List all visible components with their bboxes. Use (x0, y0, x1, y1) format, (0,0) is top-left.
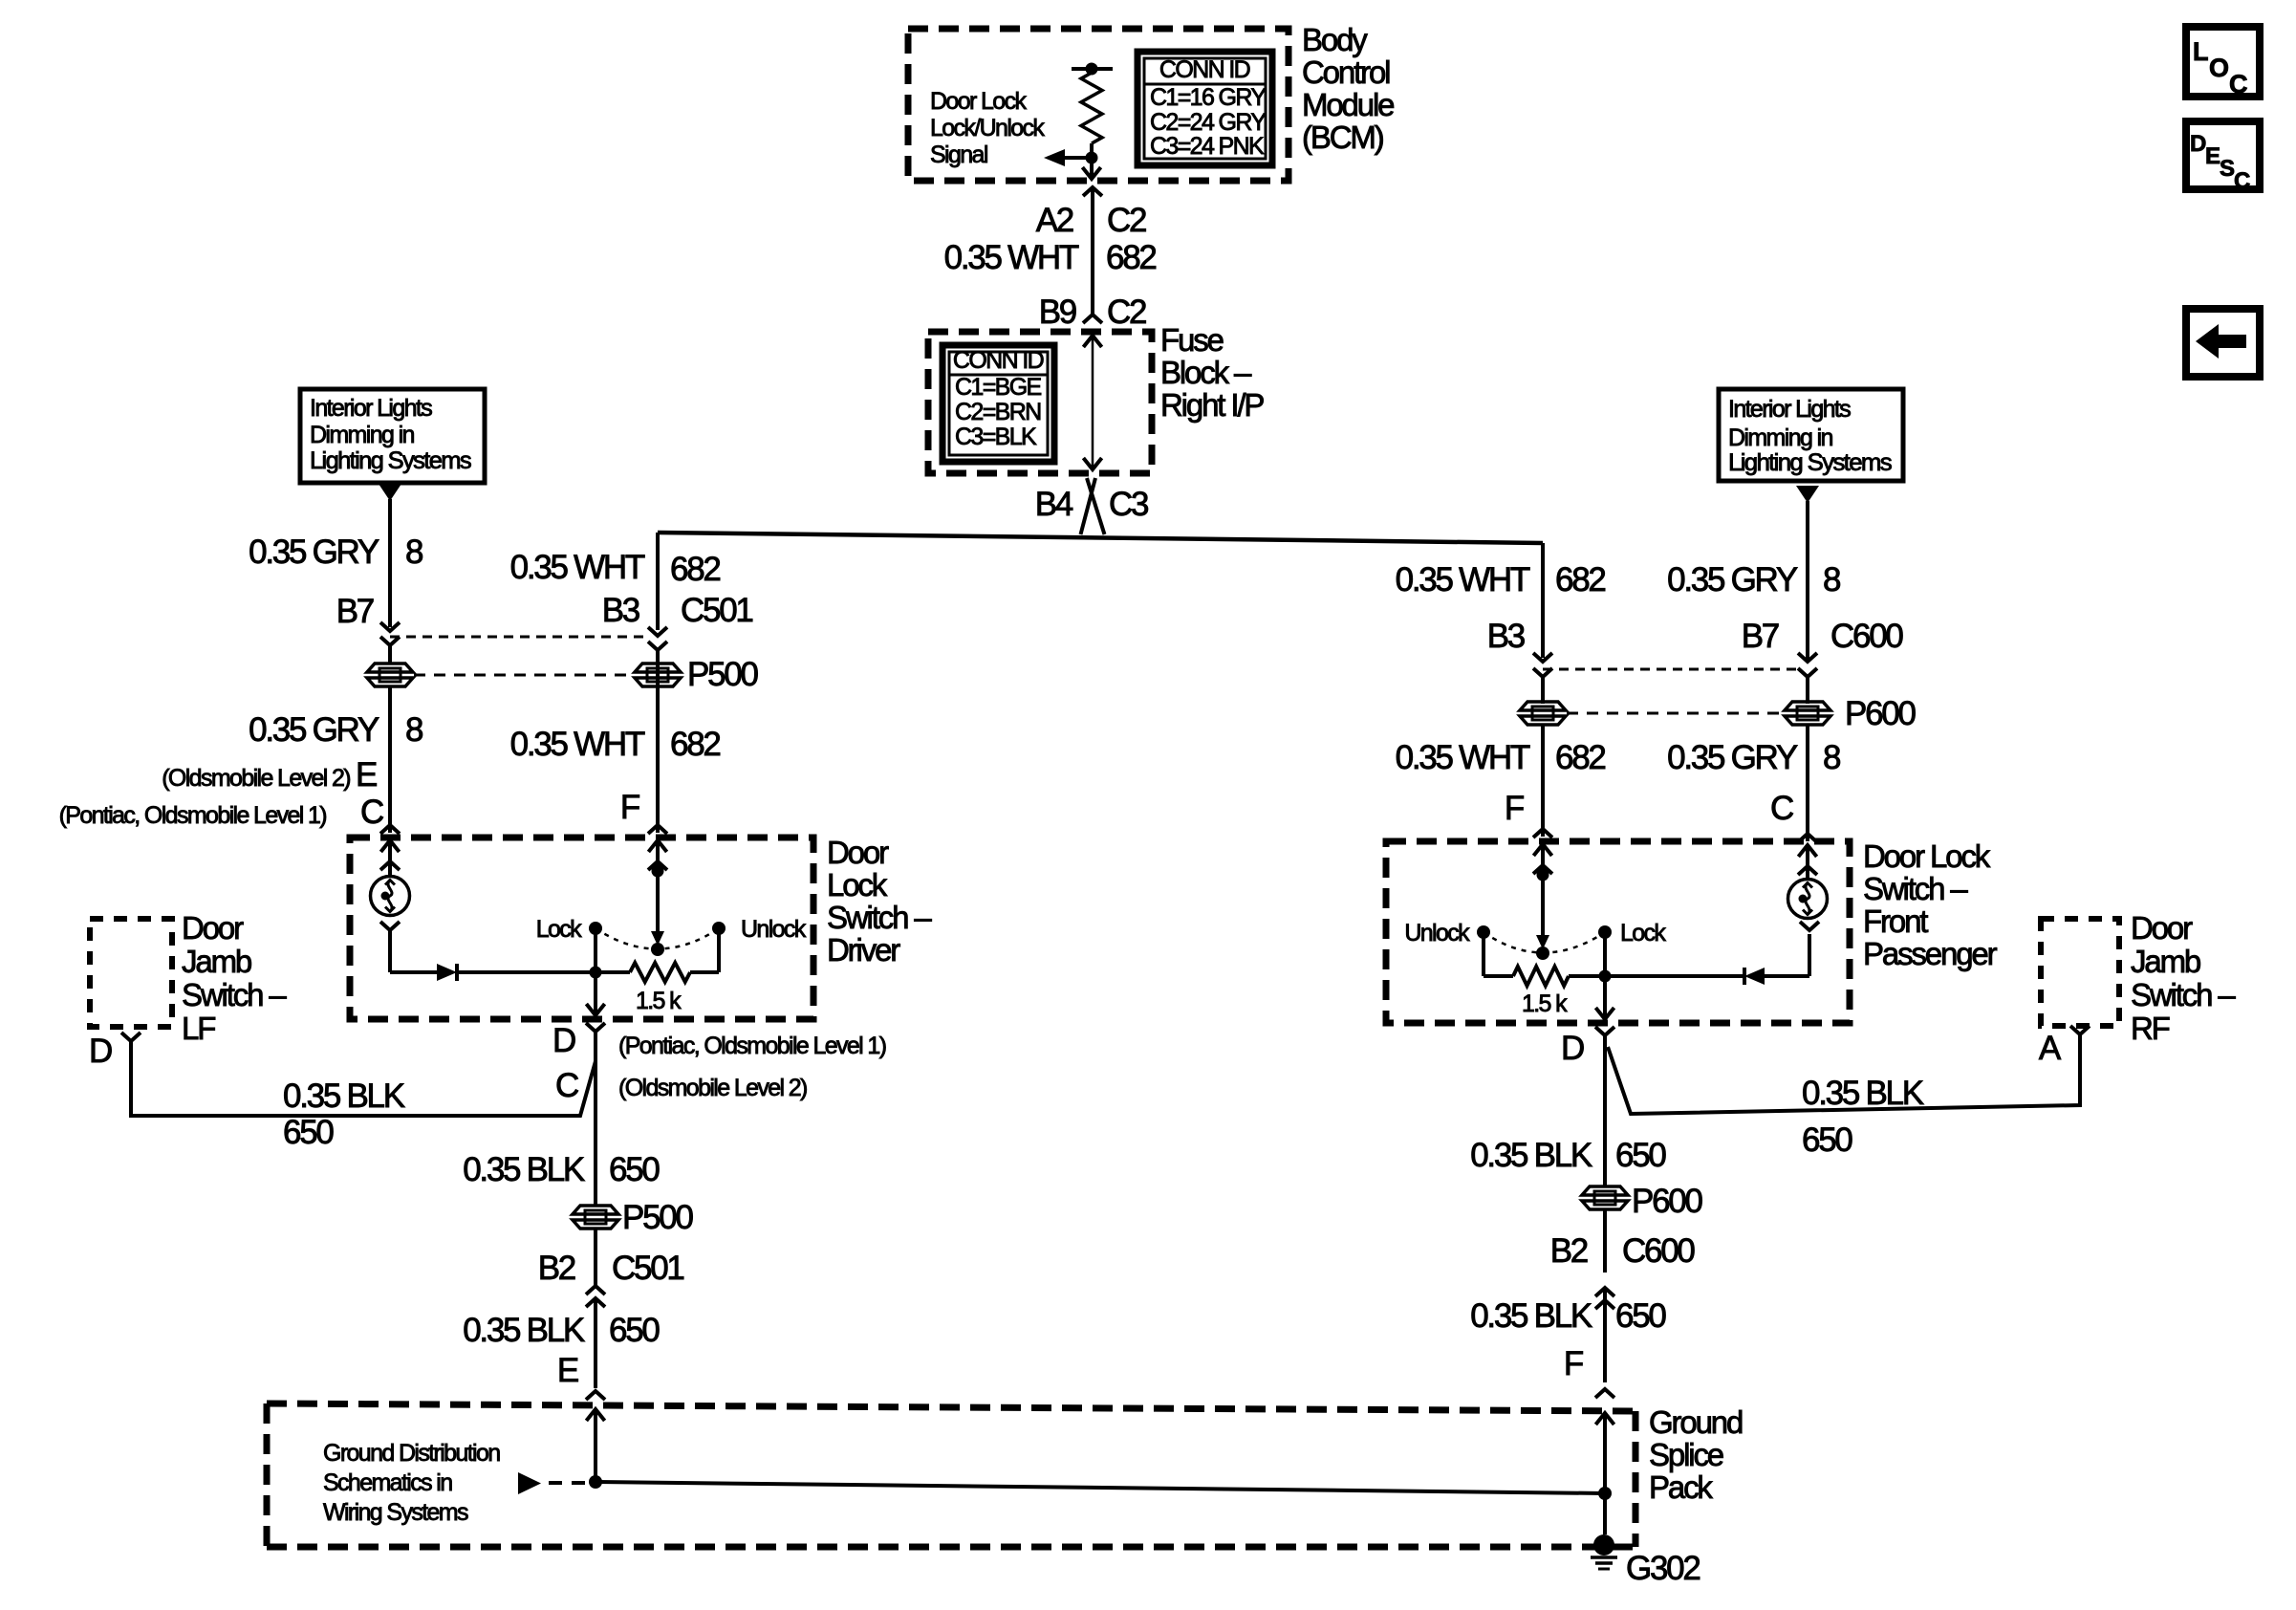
chevron inside driver box (wht) (648, 861, 667, 870)
svg-text:G302: G302 (1626, 1550, 1700, 1587)
svg-text:C: C (360, 794, 383, 831)
svg-text:682: 682 (670, 551, 720, 588)
svg-text:Lock: Lock (536, 916, 582, 943)
arrow BCM signal (left) (1044, 149, 1065, 166)
svg-text:C: C (2229, 70, 2247, 98)
svg-text:Door Lock: Door Lock (1863, 838, 1991, 874)
svg-text:Signal: Signal (930, 141, 987, 168)
wire P500 to door lock switch driver (wht) (656, 685, 660, 833)
svg-text:Switch –: Switch – (2131, 977, 2236, 1012)
wire passenger D to P600 lower (1603, 1047, 1607, 1187)
svg-text:Driver: Driver (827, 932, 900, 968)
node junction at BCM signal tap (1086, 152, 1098, 164)
svg-text:Schematics in: Schematics in (323, 1469, 452, 1496)
fork above passenger box pin F (1533, 829, 1552, 838)
svg-text:P500: P500 (687, 656, 758, 693)
LOC button icon (2186, 27, 2260, 97)
svg-text:0.35 BLK: 0.35 BLK (1470, 1137, 1592, 1174)
lamp illumination (passenger) (1788, 880, 1828, 919)
svg-text:C501: C501 (612, 1250, 683, 1287)
svg-text:0.35 WHT: 0.35 WHT (1396, 739, 1530, 776)
svg-text:D: D (1561, 1030, 1584, 1067)
svg-text:C1=16 GRY: C1=16 GRY (1150, 84, 1267, 111)
resistor 1.5 k (passenger) (1484, 974, 1513, 978)
wire B2 to F (right) (1603, 1287, 1607, 1382)
svg-text:650: 650 (283, 1114, 334, 1151)
wire driver D to P500 lower (594, 1043, 597, 1207)
svg-text:Unlock: Unlock (1404, 920, 1470, 946)
wire into splice pack (right) (1603, 1413, 1607, 1534)
arrow wiper (driver) (651, 931, 664, 946)
connector P600 (gry wire) (1785, 702, 1830, 710)
connector P500 (wht wire) (635, 664, 681, 672)
svg-text:0.35 BLK: 0.35 BLK (463, 1151, 585, 1188)
svg-text:Lighting Systems: Lighting Systems (310, 447, 471, 474)
fork above driver box pin C (380, 825, 400, 834)
wire junction to exit (driver) (594, 972, 597, 1015)
wire junction to diode (passenger) (1605, 974, 1744, 978)
svg-text:C600: C600 (1830, 618, 1903, 655)
svg-text:(Oldsmobile Level 2): (Oldsmobile Level 2) (618, 1075, 807, 1101)
svg-text:Switch –: Switch – (827, 900, 932, 935)
wire jamb RF ground lead (1608, 1034, 2080, 1114)
svg-text:Ground Distribution: Ground Distribution (323, 1440, 500, 1467)
wire ground bus (596, 1482, 1605, 1493)
wire BCM signal tap (1065, 156, 1092, 160)
svg-text:B7: B7 (336, 593, 374, 630)
svg-text:0.35 GRY: 0.35 GRY (1667, 561, 1798, 598)
svg-text:(Pontiac, Oldsmobile Level 1): (Pontiac, Oldsmobile Level 1) (618, 1033, 886, 1059)
svg-text:0.35 GRY: 0.35 GRY (1667, 739, 1798, 776)
double chevron B2/C600 (right) (1595, 1288, 1614, 1296)
wire wiper feed (passenger) (1541, 844, 1545, 937)
arrow at B7 (right) (1798, 653, 1817, 662)
fork above driver box pin F (648, 825, 667, 834)
node ground junction (right) (1598, 1487, 1612, 1500)
connector P500 (gry wire) (367, 664, 413, 672)
svg-text:0.35 WHT: 0.35 WHT (510, 726, 645, 763)
svg-text:A: A (2039, 1030, 2062, 1067)
wire into splice pack (left) (594, 1409, 597, 1482)
svg-text:Control: Control (1302, 54, 1390, 90)
svg-text:650: 650 (1615, 1137, 1666, 1174)
svg-text:Fuse: Fuse (1160, 322, 1224, 358)
svg-text:0.35 BLK: 0.35 BLK (1470, 1297, 1592, 1335)
svg-text:Dimming in: Dimming in (1728, 424, 1832, 451)
svg-text:C2=24 GRY: C2=24 GRY (1150, 109, 1267, 136)
dashed link to ground node (549, 1481, 589, 1485)
svg-text:8: 8 (1823, 739, 1840, 776)
svg-text:650: 650 (609, 1151, 660, 1188)
svg-text:Lock: Lock (827, 867, 888, 903)
svg-text:E: E (557, 1352, 578, 1389)
svg-text:Passenger: Passenger (1863, 936, 1998, 971)
svg-text:E: E (356, 756, 377, 794)
svg-text:682: 682 (670, 726, 720, 763)
svg-text:Right I/P: Right I/P (1160, 387, 1264, 423)
wire splice B4/C3 split (1081, 478, 1096, 534)
svg-text:B2: B2 (538, 1250, 575, 1287)
svg-text:P600: P600 (1845, 695, 1916, 732)
svg-text:(BCM): (BCM) (1302, 120, 1383, 155)
svg-text:1.5 k: 1.5 k (1522, 990, 1568, 1017)
switch box Door Jamb Switch - RF (2041, 919, 2119, 1026)
svg-text:O: O (2209, 54, 2228, 82)
svg-text:C3=BLK: C3=BLK (955, 424, 1037, 450)
connector line C501 dashed (390, 636, 650, 639)
svg-text:0.35 WHT: 0.35 WHT (1396, 561, 1530, 598)
dashed link P500 (414, 674, 634, 677)
svg-text:F: F (620, 789, 639, 826)
node Lock contact (driver) (589, 922, 602, 935)
wire gry to lamp (passenger) (1806, 845, 1809, 880)
wire jamb LF ground lead (131, 1041, 596, 1116)
connector table CONN ID (BCM) (1137, 52, 1272, 165)
arrow out of fuse block (down) (1083, 458, 1101, 469)
svg-text:Block –: Block – (1160, 355, 1252, 390)
svg-text:B3: B3 (602, 592, 639, 629)
arrow out of passenger box (down) (1595, 1008, 1614, 1019)
wire bus right drop (1541, 543, 1545, 658)
arrow wiper (passenger) (1536, 935, 1549, 949)
svg-text:C501: C501 (681, 592, 752, 629)
svg-text:RF: RF (2131, 1011, 2170, 1046)
svg-text:C: C (2234, 168, 2250, 194)
reference box Interior Lights Dimming in Lighting Systems (right) (1719, 389, 1903, 481)
svg-text:C: C (555, 1067, 578, 1104)
diode (driver) (437, 964, 457, 981)
arrow into fuse block (up) (1083, 336, 1101, 347)
arrow ground distribution reference (518, 1472, 541, 1494)
svg-text:C600: C600 (1622, 1232, 1695, 1270)
wire BCM resistor top bar (1072, 67, 1113, 71)
back arrow button icon (2186, 309, 2260, 377)
svg-text:Module: Module (1302, 87, 1394, 122)
wire 0.35 GRY 8 to B7 (right) (1806, 501, 1809, 660)
fork below B7 (right) (1798, 668, 1817, 677)
svg-text:Interior Lights: Interior Lights (1728, 396, 1851, 423)
svg-text:B4: B4 (1035, 486, 1073, 523)
arrow into splice pack (right) (1595, 1413, 1614, 1425)
svg-text:CONN ID: CONN ID (953, 347, 1044, 374)
svg-text:B2: B2 (1550, 1232, 1588, 1270)
arrow at B7 (380, 622, 400, 631)
fork above passenger box pin C (1798, 834, 1817, 842)
node Unlock contact (passenger) (1477, 925, 1490, 939)
fork below B3 (648, 642, 667, 650)
arrow to lighting systems (right) (1796, 486, 1819, 503)
arrow into passenger box (wht) (1533, 844, 1551, 856)
wire 0.35 GRY 8 to B7 (388, 499, 392, 627)
svg-text:0.35 BLK: 0.35 BLK (463, 1312, 585, 1349)
svg-text:Unlock: Unlock (741, 916, 807, 943)
svg-text:Front: Front (1863, 903, 1928, 939)
svg-text:Interior Lights: Interior Lights (310, 395, 432, 422)
connector table CONN ID (fuse block) (942, 345, 1054, 462)
svg-text:Switch –: Switch – (1863, 871, 1968, 906)
node wiper contact (driver) (651, 943, 664, 956)
arrow to lighting systems (left) (379, 484, 401, 501)
node wiper contact (passenger) (1536, 946, 1549, 960)
svg-text:D: D (2190, 131, 2206, 157)
svg-text:C2=BRN: C2=BRN (955, 399, 1041, 425)
connector P600 (wht wire) (1520, 702, 1566, 710)
wire P600 to passenger box (gry) (1806, 724, 1809, 841)
svg-text:0.35 BLK: 0.35 BLK (283, 1077, 405, 1115)
svg-text:P600: P600 (1632, 1183, 1702, 1220)
fork above fuse block B9 (1083, 315, 1102, 323)
svg-text:Door: Door (827, 835, 889, 870)
svg-text:D: D (552, 1022, 575, 1059)
switch wiper arc (driver) (596, 928, 719, 949)
svg-text:CONN ID: CONN ID (1159, 56, 1250, 83)
svg-text:Lock/Unlock: Lock/Unlock (930, 115, 1045, 141)
fork below driver box pin D (586, 1023, 605, 1032)
DESC button icon (2186, 121, 2260, 189)
reference box Interior Lights Dimming in Lighting Systems (left) (300, 389, 485, 483)
svg-text:Door: Door (182, 910, 244, 946)
svg-text:C3: C3 (1109, 486, 1148, 523)
fork below jamb LF pin D (121, 1033, 141, 1041)
svg-text:0.35 GRY: 0.35 GRY (249, 533, 379, 571)
svg-text:F: F (1564, 1345, 1583, 1382)
svg-text:P500: P500 (622, 1199, 693, 1236)
wire bus 682 horizontal (658, 533, 1543, 543)
chevron inside passenger box (wht) (1533, 865, 1552, 874)
wire bus left drop (656, 533, 660, 630)
svg-text:8: 8 (405, 711, 422, 749)
arrow out of driver box (down) (586, 1004, 604, 1015)
svg-text:Lighting Systems: Lighting Systems (1728, 449, 1892, 476)
svg-text:D: D (89, 1033, 112, 1070)
svg-text:0.35 WHT: 0.35 WHT (510, 549, 645, 586)
fork below B7 (380, 637, 400, 645)
svg-text:C1=BGE: C1=BGE (955, 374, 1042, 401)
svg-text:1.5 k: 1.5 k (636, 988, 682, 1014)
connector line C600 dashed (1543, 668, 1800, 671)
svg-text:B3: B3 (1487, 618, 1525, 655)
wire wiper feed (driver) (656, 840, 660, 933)
double chevron B2/C501 (left) (586, 1286, 605, 1295)
svg-text:Dimming in: Dimming in (310, 422, 414, 448)
svg-text:Pack: Pack (1649, 1469, 1713, 1505)
chevron above splice pack (right) (1595, 1389, 1614, 1398)
ground G302 symbol (1593, 1534, 1614, 1556)
dashed link P600 (1567, 712, 1784, 715)
svg-text:E: E (2205, 143, 2220, 169)
module box Body Control Module (BCM) (908, 29, 1289, 181)
svg-text:S: S (2220, 156, 2235, 182)
svg-text:Wiring Systems: Wiring Systems (323, 1499, 468, 1526)
wire Unlock contact down (driver) (717, 928, 721, 972)
svg-text:Jamb: Jamb (2131, 944, 2200, 979)
arrow at B3 (648, 627, 667, 636)
arrow into splice pack (left) (586, 1409, 604, 1421)
svg-text:C3=24 PNK: C3=24 PNK (1150, 133, 1265, 160)
node ground junction (left) (589, 1475, 602, 1489)
svg-text:(Pontiac, Oldsmobile Level 1): (Pontiac, Oldsmobile Level 1) (59, 802, 327, 829)
svg-text:650: 650 (1615, 1297, 1666, 1335)
node junction on wiper feed (passenger) (1537, 869, 1549, 881)
wire diode to lamp (passenger) (1765, 974, 1809, 978)
module box Fuse Block - Right I/P (928, 332, 1152, 473)
wire B3 to P600 (1541, 685, 1545, 704)
switch box Door Lock Switch - Driver (350, 838, 813, 1019)
switch box Door Lock Switch - Front Passenger (1386, 841, 1850, 1023)
arrow BCM output (down) (1082, 167, 1100, 179)
svg-text:0.35 BLK: 0.35 BLK (1802, 1075, 1924, 1112)
resistor in BCM (1081, 73, 1102, 143)
svg-text:682: 682 (1106, 239, 1156, 276)
wire BCM resistor to output (1090, 143, 1094, 178)
fork below passenger box pin D (1595, 1027, 1614, 1035)
wire B3 to P500 (656, 658, 660, 703)
svg-text:C2: C2 (1107, 294, 1146, 331)
connector P600 (lower) (1582, 1186, 1628, 1195)
wire P600 to passenger box (wht) (1541, 724, 1545, 837)
lamp illumination (driver) (371, 877, 410, 916)
wire B7 to P500 (388, 653, 392, 664)
switch box Door Jamb Switch - LF (90, 919, 172, 1027)
wire junction to exit (passenger) (1603, 976, 1607, 1019)
wire P600 to B2 (right) (1603, 1208, 1607, 1273)
diode (passenger) (1744, 968, 1765, 985)
chevron inside driver box (gry) (380, 861, 400, 870)
svg-text:8: 8 (1823, 561, 1840, 598)
node junction at BCM resistor top (1086, 63, 1098, 76)
wire P500 to door lock switch driver (gry) (388, 685, 392, 833)
connector P500 (lower) (573, 1206, 618, 1214)
svg-text:(Oldsmobile Level 2): (Oldsmobile Level 2) (162, 765, 350, 792)
svg-text:A2: A2 (1036, 202, 1073, 239)
chevron inside passenger box (gry) (1798, 866, 1817, 875)
fork below lamp (driver) (380, 922, 400, 930)
svg-text:0.35 WHT: 0.35 WHT (944, 239, 1079, 276)
wire inside fuse block (1092, 336, 1094, 469)
svg-text:Body: Body (1302, 22, 1368, 57)
wire B7 to P600 (1806, 685, 1809, 704)
node junction at resistor (driver) (590, 967, 602, 979)
svg-text:0.35 GRY: 0.35 GRY (249, 711, 379, 749)
svg-text:B9: B9 (1039, 294, 1076, 331)
wire Unlock contact down (passenger) (1482, 932, 1485, 976)
arrow into driver box (wht) (648, 840, 666, 852)
svg-text:Jamb: Jamb (182, 944, 251, 979)
svg-text:C: C (1770, 790, 1793, 827)
svg-text:Door Lock: Door Lock (930, 88, 1027, 115)
fork below jamb RF pin A (2070, 1026, 2090, 1034)
node Lock contact (passenger) (1598, 925, 1612, 939)
fork below BCM pin A2 (1083, 187, 1102, 196)
arrow into passenger box (gry) (1798, 845, 1816, 857)
svg-text:650: 650 (1802, 1121, 1852, 1159)
arrow at B3 (right) (1533, 653, 1552, 662)
wire 0.35 WHT 682 BCM to fuse block (1091, 187, 1094, 315)
wire P500 to B2 (left) (594, 1228, 597, 1285)
svg-text:F: F (1505, 790, 1524, 827)
wire to lamp (driver) (388, 840, 392, 877)
wire Lock contact down (driver) (594, 928, 597, 972)
wire lamp to diode row (driver) (388, 930, 392, 972)
svg-text:682: 682 (1555, 739, 1605, 776)
svg-text:8: 8 (405, 533, 422, 571)
node Unlock contact (driver) (712, 922, 726, 935)
svg-text:682: 682 (1555, 561, 1605, 598)
svg-text:Lock: Lock (1620, 920, 1666, 946)
svg-text:C2: C2 (1107, 202, 1146, 239)
resistor 1.5 k (driver) (596, 970, 630, 974)
svg-text:Door: Door (2131, 910, 2193, 946)
svg-text:Ground: Ground (1649, 1404, 1743, 1440)
fork below lamp (passenger) (1800, 922, 1819, 930)
svg-text:Splice: Splice (1649, 1437, 1723, 1472)
svg-text:LF: LF (182, 1011, 215, 1046)
switch wiper arc (passenger) (1484, 932, 1605, 953)
chevron above splice pack (left) (586, 1391, 605, 1400)
wire B2 to E (left) (594, 1298, 597, 1388)
node junction at resistor (passenger) (1599, 970, 1612, 983)
svg-text:L: L (2193, 37, 2208, 66)
fork below B3 (right) (1533, 668, 1552, 677)
node junction on wiper feed (driver) (652, 865, 664, 878)
svg-text:650: 650 (609, 1312, 660, 1349)
svg-text:B7: B7 (1742, 618, 1779, 655)
wire diode to junction (driver) (457, 970, 596, 974)
wire Lock contact down (passenger) (1603, 932, 1607, 976)
module box Ground Splice Pack (267, 1403, 1635, 1411)
arrow into driver box (gry) (380, 840, 399, 852)
svg-text:Switch –: Switch – (182, 977, 287, 1012)
